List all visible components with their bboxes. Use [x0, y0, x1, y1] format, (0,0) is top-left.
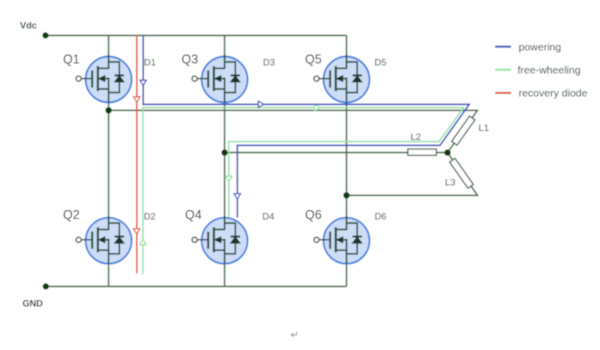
svg-text:↵: ↵ [291, 330, 299, 341]
wire phase A output [109, 110, 478, 152]
wire free-wheeling path (green) [143, 108, 464, 275]
legend free-wheeling [495, 69, 511, 71]
transistor Q1 [76, 55, 132, 103]
wire top rail Vdc [46, 34, 347, 36]
transistor Q2 [76, 216, 132, 264]
svg-text:Q6: Q6 [305, 208, 322, 222]
svg-text:L3: L3 [445, 178, 456, 189]
wire powering path (blue) [143, 35, 469, 217]
arrow green right phase A [315, 104, 321, 110]
wire leg Q1-Q2 column [108, 35, 110, 286]
svg-text:Q3: Q3 [182, 52, 199, 66]
wire phase C output [347, 153, 478, 196]
svg-text:Vdc: Vdc [20, 21, 37, 31]
svg-text:D6: D6 [375, 212, 387, 222]
svg-text:Q5: Q5 [305, 52, 322, 66]
arrow red down D2 [134, 229, 140, 235]
inductor L2 [408, 149, 437, 155]
inductor L3 [450, 158, 474, 188]
transistor Q3 [192, 55, 248, 103]
node Vdc terminal dot [42, 32, 48, 38]
svg-text:D3: D3 [263, 57, 275, 67]
arrow green down Q4 [226, 176, 232, 182]
wire phase B output [225, 152, 448, 154]
node star point [444, 149, 450, 155]
svg-text:D2: D2 [144, 212, 156, 222]
wire bottom rail GND [46, 285, 347, 287]
svg-text:recovery diode: recovery diode [519, 88, 588, 100]
legend powering [495, 46, 511, 48]
svg-text:D1: D1 [144, 57, 156, 67]
node GND terminal dot [43, 283, 49, 289]
arrow green up Q2 [140, 239, 146, 245]
transistor Q6 [314, 216, 370, 264]
transistor Q4 [192, 216, 248, 264]
node phase A junction [105, 107, 111, 113]
legend recovery diode [495, 92, 511, 94]
wire leg Q5-Q6 column [346, 35, 348, 286]
svg-text:Q1: Q1 [63, 52, 80, 66]
node phase B junction [221, 149, 227, 155]
inductor L1 [452, 116, 475, 145]
arrow blue right phase A [258, 101, 264, 107]
svg-text:D4: D4 [262, 212, 274, 222]
wire leg Q3-Q4 column [224, 35, 226, 286]
wire recovery diode path (red) [136, 35, 138, 273]
svg-text:powering: powering [519, 41, 562, 53]
arrow blue down Q1 [140, 80, 146, 86]
svg-text:D5: D5 [375, 57, 387, 67]
arrow blue down Q4 [234, 194, 240, 200]
node phase C junction [343, 192, 349, 198]
svg-text:Q4: Q4 [185, 208, 202, 222]
transistor Q5 [314, 55, 370, 103]
svg-text:L1: L1 [479, 123, 490, 134]
svg-text:GND: GND [23, 299, 44, 309]
arrow red down D1 [134, 97, 140, 103]
svg-text:free-wheeling: free-wheeling [518, 64, 581, 76]
svg-text:Q2: Q2 [63, 208, 80, 222]
